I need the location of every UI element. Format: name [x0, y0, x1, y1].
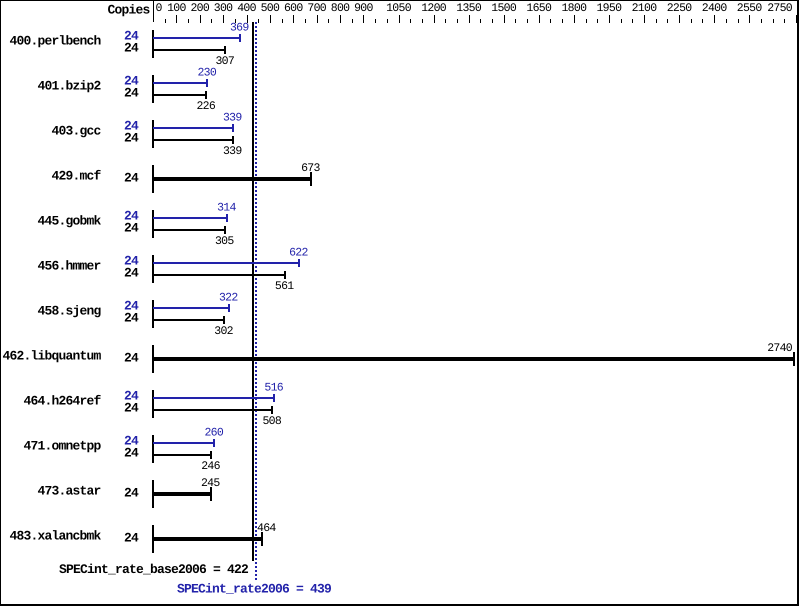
- svg-text:456.hmmer: 456.hmmer: [37, 259, 100, 274]
- svg-text:314: 314: [217, 202, 236, 215]
- 456.hmmer peak bar (622): [153, 262, 300, 264]
- 483.xalancbmk axis cap: [152, 525, 154, 553]
- 400.perlbench peak bar end cap: [239, 34, 241, 42]
- svg-text:464: 464: [257, 522, 276, 535]
- 462.libquantum base bar end cap: [793, 352, 795, 366]
- svg-text:24: 24: [124, 86, 139, 101]
- 464.h264ref base bar end cap: [271, 406, 273, 414]
- svg-text:24: 24: [124, 221, 139, 236]
- 445.gobmk peak bar (314): [153, 217, 228, 219]
- 401.bzip2 peak bar end cap: [206, 79, 208, 87]
- svg-text:1650: 1650: [526, 2, 552, 15]
- svg-text:500: 500: [261, 2, 280, 15]
- axis scale labels: [156, 2, 793, 15]
- 429.mcf base bar (673): [153, 177, 312, 181]
- svg-text:429.mcf: 429.mcf: [51, 169, 101, 184]
- svg-text:464.h264ref: 464.h264ref: [23, 394, 101, 409]
- 471.omnetpp base bar end cap: [210, 451, 212, 459]
- svg-text:400.perlbench: 400.perlbench: [9, 34, 101, 49]
- 458.sjeng axis cap: [152, 300, 154, 328]
- header separator: [153, 1, 154, 22]
- base metric reference line (422): [252, 22, 254, 561]
- svg-text:24: 24: [124, 401, 139, 416]
- chart border left: [0, 0, 1, 606]
- svg-text:0: 0: [156, 2, 163, 15]
- svg-text:561: 561: [275, 280, 294, 293]
- 458.sjeng peak bar end cap: [228, 304, 230, 312]
- 464.h264ref peak bar end cap: [273, 394, 275, 402]
- 429.mcf axis cap: [152, 165, 154, 193]
- 483.xalancbmk base bar end cap: [261, 532, 263, 546]
- 403.gcc base bar end cap: [232, 136, 234, 144]
- svg-text:800: 800: [331, 2, 350, 15]
- svg-text:2100: 2100: [632, 2, 658, 15]
- svg-text:24: 24: [124, 311, 139, 326]
- 445.gobmk peak bar end cap: [226, 214, 228, 222]
- 456.hmmer axis cap: [152, 255, 154, 283]
- 429.mcf base bar end cap: [310, 172, 312, 186]
- 401.bzip2 base bar end cap: [205, 91, 207, 99]
- 473.astar base bar end cap: [210, 487, 212, 501]
- svg-text:24: 24: [124, 41, 139, 56]
- svg-text:24: 24: [124, 351, 139, 366]
- 458.sjeng peak bar (322): [153, 307, 230, 309]
- 403.gcc axis cap: [152, 120, 154, 148]
- svg-text:2250: 2250: [667, 2, 693, 15]
- svg-text:445.gobmk: 445.gobmk: [37, 214, 101, 229]
- 473.astar axis cap: [152, 480, 154, 508]
- 403.gcc peak bar (339): [153, 127, 234, 129]
- svg-text:473.astar: 473.astar: [37, 484, 100, 499]
- chart border bottom: [0, 604, 799, 606]
- 458.sjeng base bar (302): [153, 319, 225, 321]
- svg-text:24: 24: [124, 531, 139, 546]
- 471.omnetpp peak bar (260): [153, 442, 215, 444]
- 483.xalancbmk base bar (464): [153, 537, 263, 541]
- 456.hmmer peak bar end cap: [298, 259, 300, 267]
- svg-text:403.gcc: 403.gcc: [51, 124, 101, 139]
- svg-text:322: 322: [219, 292, 238, 305]
- svg-text:369: 369: [230, 22, 249, 35]
- svg-text:305: 305: [215, 235, 234, 248]
- 456.hmmer base bar end cap: [284, 271, 286, 279]
- svg-text:SPECint_rate2006 = 439: SPECint_rate2006 = 439: [177, 582, 332, 597]
- svg-text:1950: 1950: [596, 2, 622, 15]
- svg-text:226: 226: [196, 100, 215, 113]
- svg-text:230: 230: [197, 67, 216, 80]
- 473.astar base bar (245): [153, 492, 212, 496]
- svg-text:1200: 1200: [421, 2, 447, 15]
- 462.libquantum base bar (2740): [153, 357, 795, 361]
- 400.perlbench base bar (307): [153, 49, 226, 51]
- 458.sjeng base bar end cap: [223, 316, 225, 324]
- svg-text:400: 400: [237, 2, 256, 15]
- 445.gobmk base bar end cap: [224, 226, 226, 234]
- chart border top: [0, 0, 799, 1]
- svg-text:401.bzip2: 401.bzip2: [37, 79, 101, 94]
- 471.omnetpp peak bar end cap: [213, 439, 215, 447]
- svg-text:24: 24: [124, 266, 139, 281]
- 403.gcc base bar (339): [153, 139, 234, 141]
- 400.perlbench axis cap: [152, 30, 154, 58]
- svg-text:24: 24: [124, 171, 139, 186]
- 471.omnetpp axis cap: [152, 435, 154, 463]
- svg-text:24: 24: [124, 131, 139, 146]
- 400.perlbench peak bar (369): [153, 37, 241, 39]
- svg-text:Copies: Copies: [107, 3, 150, 18]
- svg-text:260: 260: [204, 427, 223, 440]
- svg-text:600: 600: [284, 2, 303, 15]
- svg-text:SPECint_rate_base2006 = 422: SPECint_rate_base2006 = 422: [59, 562, 249, 577]
- 471.omnetpp base bar (246): [153, 454, 212, 456]
- svg-text:2550: 2550: [737, 2, 763, 15]
- svg-text:339: 339: [223, 112, 242, 125]
- svg-text:307: 307: [215, 55, 234, 68]
- svg-text:24: 24: [124, 446, 139, 461]
- svg-text:622: 622: [289, 247, 308, 260]
- svg-text:673: 673: [301, 162, 320, 175]
- 445.gobmk base bar (305): [153, 229, 226, 231]
- svg-text:339: 339: [223, 145, 242, 158]
- 401.bzip2 base bar (226): [153, 94, 207, 96]
- svg-text:24: 24: [124, 486, 139, 501]
- 464.h264ref axis cap: [152, 390, 154, 418]
- svg-text:1800: 1800: [561, 2, 587, 15]
- svg-text:100: 100: [167, 2, 186, 15]
- svg-text:245: 245: [201, 477, 220, 490]
- 403.gcc peak bar end cap: [232, 124, 234, 132]
- 456.hmmer base bar (561): [153, 274, 286, 276]
- svg-text:2750: 2750: [767, 2, 793, 15]
- svg-text:2400: 2400: [702, 2, 728, 15]
- svg-text:508: 508: [262, 415, 281, 428]
- 401.bzip2 axis cap: [152, 75, 154, 103]
- svg-text:1050: 1050: [386, 2, 412, 15]
- svg-text:1350: 1350: [456, 2, 482, 15]
- svg-text:700: 700: [307, 2, 326, 15]
- svg-text:471.omnetpp: 471.omnetpp: [23, 439, 101, 454]
- svg-text:302: 302: [214, 325, 233, 338]
- 464.h264ref peak bar (516): [153, 397, 275, 399]
- svg-text:483.xalancbmk: 483.xalancbmk: [9, 529, 101, 544]
- svg-text:900: 900: [354, 2, 373, 15]
- svg-text:200: 200: [190, 2, 209, 15]
- chart border right: [797, 0, 799, 606]
- axis tick marks: [165, 15, 797, 23]
- 400.perlbench base bar end cap: [224, 46, 226, 54]
- svg-text:458.sjeng: 458.sjeng: [37, 304, 101, 319]
- 445.gobmk axis cap: [152, 210, 154, 238]
- 464.h264ref base bar (508): [153, 409, 273, 411]
- svg-text:2740: 2740: [767, 342, 793, 355]
- 401.bzip2 peak bar (230): [153, 82, 208, 84]
- svg-text:516: 516: [264, 382, 283, 395]
- svg-text:462.libquantum: 462.libquantum: [2, 349, 101, 364]
- peak metric reference line (439, dotted): [255, 22, 257, 582]
- svg-text:246: 246: [201, 460, 220, 473]
- svg-text:1500: 1500: [491, 2, 517, 15]
- svg-text:300: 300: [214, 2, 233, 15]
- 462.libquantum axis cap: [152, 345, 154, 373]
